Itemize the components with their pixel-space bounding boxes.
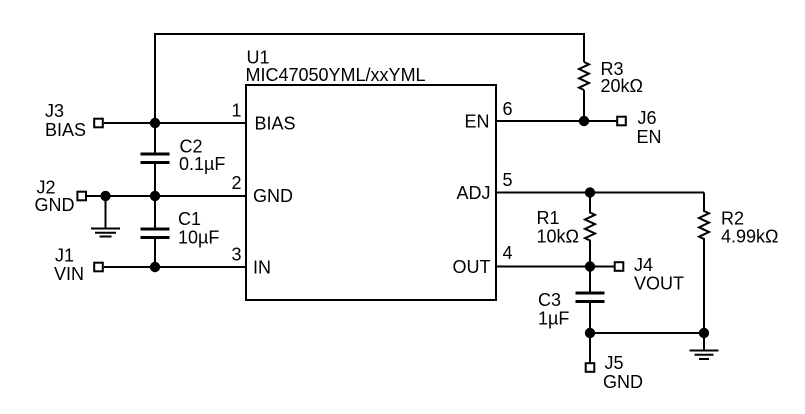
node EN/R3 junction	[579, 116, 589, 126]
node GND/J2 junction	[150, 191, 160, 201]
wire ground drop at R2	[703, 333, 705, 350]
wire top BIAS-to-R3 net	[155, 34, 584, 123]
node VIN/J1 junction	[150, 262, 160, 272]
svg-text:10kΩ: 10kΩ	[537, 227, 579, 247]
svg-text:EN: EN	[464, 112, 489, 132]
svg-text:C1: C1	[178, 209, 201, 229]
svg-text:MIC47050YML/xxYML: MIC47050YML/xxYML	[246, 65, 426, 85]
svg-text:J1: J1	[55, 246, 74, 266]
wire pin 4 OUT to J4	[496, 266, 614, 268]
svg-text:J6: J6	[638, 108, 657, 128]
wire C2 upper lead	[154, 123, 156, 153]
node ADJ/R1 junction	[585, 187, 595, 197]
svg-text:J4: J4	[634, 255, 653, 275]
wire J5 lead	[589, 333, 591, 363]
svg-text:6: 6	[503, 99, 513, 119]
resistor R1	[585, 193, 595, 267]
svg-text:5: 5	[503, 170, 513, 190]
wire J1 to pin 3	[104, 266, 246, 268]
capacitor C3	[576, 293, 605, 302]
ground	[91, 229, 120, 237]
resistor R3	[579, 62, 589, 90]
wire bottom out-gnd	[590, 332, 704, 334]
svg-text:J5: J5	[605, 353, 624, 373]
svg-text:1µF: 1µF	[538, 309, 569, 329]
capacitor C1	[141, 229, 170, 238]
svg-text:20kΩ: 20kΩ	[601, 76, 643, 96]
wire J3 to pin 1	[104, 122, 246, 124]
svg-text:GND: GND	[35, 195, 75, 215]
wire C3 upper lead	[589, 267, 591, 292]
connector J5 terminal	[586, 363, 595, 372]
wire R3 lower lead	[583, 90, 585, 121]
connector J1 terminal	[94, 263, 103, 272]
svg-text:2: 2	[231, 173, 241, 193]
node BIAS/J3 junction	[150, 118, 160, 128]
svg-text:1: 1	[231, 101, 241, 121]
wire C3 lower lead	[589, 303, 591, 333]
wire ground drop at J2	[105, 196, 107, 228]
svg-text:IN: IN	[253, 258, 271, 278]
svg-text:R1: R1	[537, 208, 560, 228]
svg-text:VOUT: VOUT	[634, 274, 684, 294]
svg-text:ADJ: ADJ	[456, 183, 490, 203]
svg-text:GND: GND	[253, 186, 293, 206]
connector J4 terminal	[615, 262, 624, 271]
connector J3 terminal	[94, 119, 103, 128]
connector J2 terminal	[77, 192, 86, 201]
svg-text:0.1µF: 0.1µF	[179, 154, 225, 174]
svg-text:J3: J3	[45, 101, 64, 121]
svg-text:OUT: OUT	[453, 257, 491, 277]
node C3/J5 junction	[585, 328, 595, 338]
wire J2 to pin 2	[87, 195, 246, 197]
ground	[690, 351, 719, 360]
svg-text:10µF: 10µF	[178, 228, 219, 248]
wire C2 lower lead	[154, 164, 156, 196]
svg-text:EN: EN	[637, 127, 662, 147]
svg-text:C3: C3	[538, 290, 561, 310]
node OUT/R1/C3 junction	[585, 261, 595, 271]
node ground tap junction	[100, 191, 110, 201]
svg-text:R2: R2	[721, 209, 744, 229]
wire C1 upper lead	[154, 196, 156, 228]
node R2/ground junction	[699, 328, 709, 338]
svg-text:VIN: VIN	[54, 264, 84, 284]
capacitor C2	[141, 154, 170, 163]
IC U1 body	[246, 85, 496, 300]
svg-text:4: 4	[503, 243, 513, 263]
svg-text:GND: GND	[603, 372, 643, 392]
resistor R2	[699, 193, 709, 334]
connector J6 terminal	[617, 117, 626, 126]
wire C1 lower lead	[154, 239, 156, 267]
wire pin 6 to J6	[496, 120, 616, 122]
svg-text:3: 3	[231, 245, 241, 265]
svg-text:4.99kΩ: 4.99kΩ	[721, 227, 779, 247]
svg-text:BIAS: BIAS	[45, 120, 86, 140]
wire pin 5 ADJ net	[496, 192, 704, 194]
svg-text:BIAS: BIAS	[255, 114, 296, 134]
